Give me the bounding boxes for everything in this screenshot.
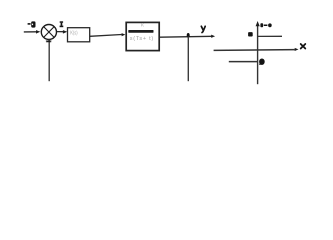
svg-text:K(s): K(s) xyxy=(70,31,78,37)
svg-text:s(Ts+ t): s(Ts+ t) xyxy=(130,36,154,42)
